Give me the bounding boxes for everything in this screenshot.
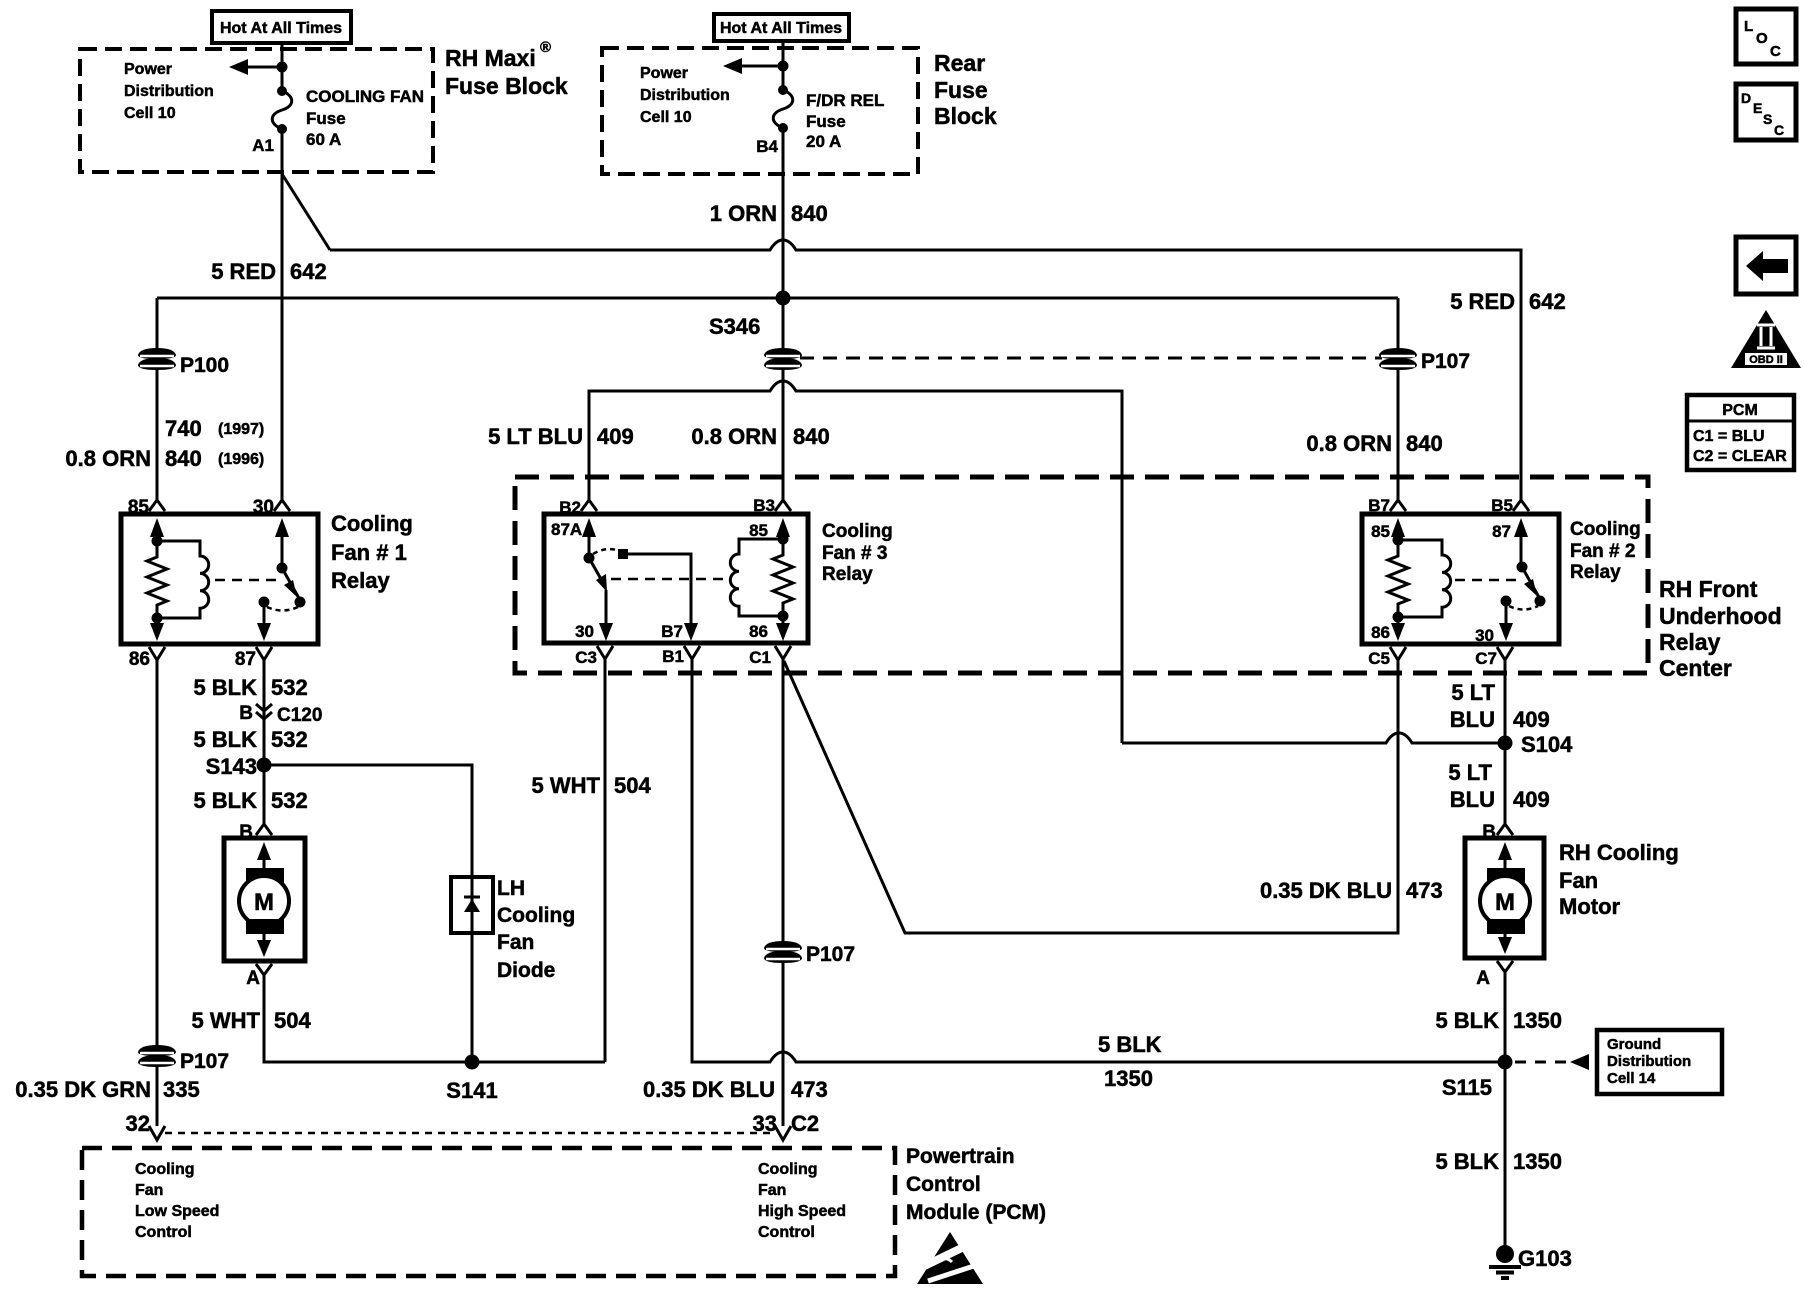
svg-text:5 WHT: 5 WHT [192,1008,261,1033]
svg-text:1 ORN: 1 ORN [710,201,777,226]
svg-text:30: 30 [1475,626,1494,645]
wire motor A down to S141 trunk [264,975,605,1062]
fuse COOLING FAN 60A [272,86,292,134]
svg-text:87: 87 [235,649,256,670]
inline connector C120 pin B [239,703,322,726]
svg-text:B2: B2 [559,498,581,517]
LH Cooling Fan Diode label [497,877,575,982]
back arrow icon [1736,237,1796,294]
PCM dashed box [82,1148,895,1276]
svg-text:Cooling: Cooling [822,521,893,542]
1 ORN 840 label [710,201,828,226]
svg-text:0.35 DK BLU: 0.35 DK BLU [643,1077,775,1102]
K3 switch common stud [618,549,628,559]
wire LT BLU riser to S104 (hops over x=1398) [1122,733,1505,743]
wire from Hot At All Times to fuse (right) [782,42,785,90]
svg-text:85: 85 [1371,522,1390,541]
splice S141 [446,1055,497,1104]
diode D1 box [451,877,493,933]
svg-text:Cooling: Cooling [135,1161,195,1178]
svg-text:Motor: Motor [1559,894,1621,919]
RH motor terminal arrow (A) [1504,934,1507,941]
splice S104 [1498,732,1574,757]
motor pin B chevron [256,824,272,835]
Hot At All Times box (left) [212,11,351,43]
svg-text:30: 30 [253,497,274,518]
OBD II triangle icon [1731,310,1801,368]
DESC icon [1736,84,1796,140]
svg-text:60 A: 60 A [306,130,341,149]
svg-text:B7: B7 [1368,496,1390,515]
svg-text:Relay: Relay [1659,629,1721,655]
svg-text:C7: C7 [1475,649,1497,668]
K1 switch terminal arrow (87) [263,607,266,627]
svg-text:87A: 87A [551,520,582,539]
pin B7 chevron [1390,500,1406,511]
svg-text:473: 473 [791,1077,828,1102]
5 BLK 532 label (above S143) [193,727,307,752]
RH motor terminal arrow (B) [1498,842,1512,860]
svg-text:473: 473 [1406,878,1443,903]
svg-text:P107: P107 [806,943,855,966]
K3 coil-switch dashed link [611,578,723,581]
0.35 DK BLU 473 label (relay2 86 branch) [1260,878,1443,903]
K2 switch terminal arrow (30) [1505,606,1508,627]
pin C7 chevron [1497,647,1513,660]
pin 33 connector chevron [775,1126,791,1140]
pin 85 chevron [149,500,165,511]
svg-text:RH Front: RH Front [1659,576,1758,602]
wire relay1 87 down to motor B [263,660,266,824]
LOC icon [1736,9,1796,64]
svg-text:Cell 10: Cell 10 [124,105,176,122]
svg-text:86: 86 [129,649,150,670]
pin 32 connector chevron [149,1126,165,1140]
svg-text:Fuse: Fuse [806,112,846,131]
svg-text:S: S [1763,111,1772,127]
740 (1997) / 0.8 ORN 840 (1996) labels [65,416,264,471]
relay K1 box [121,514,318,644]
svg-text:Fuse Block: Fuse Block [445,73,568,99]
svg-text:Underhood: Underhood [1659,603,1782,629]
dashed wire P107 pass-through (top) [800,357,1382,360]
wire A1 fuse down to relay1 pin 30 [281,129,284,500]
svg-text:20 A: 20 A [806,132,841,151]
K1 coil-switch dashed link [215,579,277,582]
svg-text:B5: B5 [1491,496,1513,515]
relay K3 box [544,514,808,643]
svg-text:Control: Control [758,1224,815,1241]
svg-text:642: 642 [1529,289,1566,314]
K2 coil inductor element [1398,540,1451,617]
svg-text:PCM: PCM [1722,402,1758,419]
wire C7 down through S104 to RH motor B [1504,660,1507,824]
pin C5 chevron [1390,647,1406,660]
svg-text:M: M [1495,889,1515,916]
svg-text:S143: S143 [206,754,257,779]
svg-text:840: 840 [1406,431,1443,456]
0.8 ORN trunk wire [157,297,1398,300]
svg-text:O: O [1756,30,1768,47]
svg-text:642: 642 [290,259,327,284]
K1 switch dashed throw arc [267,607,298,611]
svg-text:532: 532 [271,675,308,700]
LH Cooling Fan Motor box [224,838,305,961]
K1 coil node top [152,536,163,547]
inline connector P100 [138,348,229,377]
K2 switch dashed throw arc [1509,606,1538,610]
Cooling Fan Low Speed Control label [135,1161,219,1241]
svg-text:C3: C3 [575,648,597,667]
svg-text:C1 = BLU: C1 = BLU [1693,428,1765,445]
K2 coil-switch dashed link [1455,579,1516,582]
svg-text:86: 86 [749,622,768,641]
K1 coil node bottom [152,613,163,624]
svg-text:Relay: Relay [1570,562,1621,583]
svg-text:5 BLK: 5 BLK [193,675,257,700]
svg-text:Fuse: Fuse [306,109,346,128]
wire B4 fuse down through S346 to relay3 pin B3 [782,128,785,500]
svg-text:0.8 ORN: 0.8 ORN [1306,431,1392,456]
svg-text:5 RED: 5 RED [1450,289,1515,314]
svg-text:Cooling: Cooling [1570,519,1641,540]
svg-text:LH: LH [497,877,525,900]
svg-text:C2: C2 [791,1111,819,1136]
svg-text:Control: Control [906,1173,981,1196]
K1 coil resistor element [147,541,167,618]
K3 coil node top [778,534,789,545]
pin B2 chevron [581,500,597,511]
svg-text:Cell 14: Cell 14 [1607,1070,1656,1087]
F/DR REL Fuse 20 A label [806,91,884,151]
5 RED 642 label (left) [211,259,327,284]
K3 wire common to pin B1 [628,554,691,627]
LH motor upper brush [246,868,284,883]
svg-text:5 LT BLU: 5 LT BLU [488,424,583,449]
svg-text:®: ® [540,39,551,56]
svg-text:0.35 DK GRN: 0.35 DK GRN [15,1077,151,1102]
svg-text:5 RED: 5 RED [211,259,276,284]
LH motor lower brush [246,919,284,934]
svg-text:409: 409 [1513,707,1550,732]
svg-text:A: A [246,968,260,989]
svg-text:840: 840 [791,201,828,226]
svg-text:Hot At All Times: Hot At All Times [220,20,342,37]
svg-text:532: 532 [271,727,308,752]
5 BLK 532 label (above C120) [193,675,307,700]
LH motor terminal arrow (A) [263,934,266,944]
K1 switch terminal arrow (30) [275,518,289,537]
K2 coil terminal arrow (86) [1397,617,1400,627]
K3 coil inductor element [730,539,783,616]
RH motor lower brush [1487,919,1525,934]
5 LT BLU 409 label (below S104) [1448,760,1549,812]
K2 coil node bottom [1393,612,1404,623]
svg-text:C120: C120 [277,705,322,726]
svg-text:C5: C5 [1368,649,1390,668]
wire from Hot At All Times to fuse (left) [281,44,284,91]
pin B5 chevron [1513,500,1529,511]
svg-text:1350: 1350 [1513,1149,1562,1174]
pin 86 chevron [149,647,165,660]
svg-text:5 BLK: 5 BLK [193,727,257,752]
svg-text:Distribution: Distribution [640,87,730,104]
5 BLK 1350 label (to G103) [1435,1149,1562,1174]
svg-text:5 BLK: 5 BLK [193,788,257,813]
RH Front Underhood Relay Center dashed box [515,477,1648,673]
0.8 ORN 840 label (relay2 B7) [1306,431,1442,456]
K3 coil resistor element [773,539,793,616]
RH motor armature circle [1480,876,1530,926]
svg-text:Power: Power [640,65,688,82]
svg-text:Fan: Fan [758,1182,786,1199]
RH Maxi Fuse Block label [445,39,568,99]
K2 coil resistor element [1388,540,1408,617]
K3 switch terminal arrow (B1) [684,623,698,641]
svg-text:C: C [1774,122,1784,138]
svg-text:COOLING FAN: COOLING FAN [306,87,424,106]
svg-text:Diode: Diode [497,959,555,982]
Rear Fuse Block label [934,50,997,129]
K2 coil node top [1393,535,1404,546]
wire relay1 86 down to PCM pin 32 [156,660,159,1126]
pin C3 chevron [597,646,613,659]
svg-text:335: 335 [163,1077,200,1102]
svg-text:Cooling: Cooling [331,511,413,536]
svg-text:S346: S346 [709,314,760,339]
wire left ORN drop to P100 and relay1 pin 85 [156,298,159,500]
svg-text:BLU: BLU [1450,707,1495,732]
ground G103 [1489,1245,1572,1278]
svg-text:85: 85 [749,521,768,540]
wire diode to S141 [471,933,474,1062]
K1 switch pivot [277,563,288,574]
svg-text:1350: 1350 [1513,1008,1562,1033]
svg-text:840: 840 [165,446,202,471]
svg-text:Fan # 1: Fan # 1 [331,540,407,565]
svg-text:(1997): (1997) [218,421,264,438]
svg-text:0.8 ORN: 0.8 ORN [691,424,777,449]
diode D1 symbol [464,877,480,933]
svg-text:504: 504 [614,773,651,798]
Cooling Fan High Speed Control label [758,1161,846,1241]
off-page arrow to Power Distribution (right) [723,58,789,74]
wire C3 down and left to S141 [604,659,607,1062]
svg-text:S141: S141 [446,1078,497,1103]
5 BLK 532 label (below S143) [193,788,307,813]
K3 coil terminal arrow (85) [776,518,790,537]
K1 coil terminal arrow (86) [156,618,159,627]
K2 switch pivot [1517,562,1528,573]
K3 switch blade [589,558,605,586]
svg-text:5 WHT: 5 WHT [532,773,601,798]
inline connector below S346 [764,348,802,370]
svg-text:Cooling: Cooling [758,1161,818,1178]
5 BLK / 1350 label (trunk) [1098,1032,1162,1091]
inline connector P107 (right) [1379,348,1470,373]
5 LT BLU 409 label (above S104) [1450,680,1550,732]
svg-text:86: 86 [1371,623,1390,642]
5 RED 642 label (right) [1450,289,1566,314]
svg-text:Relay: Relay [822,564,873,585]
relay K2 box [1362,514,1559,644]
svg-text:1350: 1350 [1104,1066,1153,1091]
svg-text:Fan: Fan [135,1182,163,1199]
wire B1 down to BLK trunk (hops over x=783) [692,659,1505,1062]
svg-text:OBD II: OBD II [1749,354,1783,366]
Powertrain Control Module (PCM) label [906,1145,1046,1224]
svg-text:E: E [1753,100,1762,116]
splice S346 [709,291,791,340]
svg-text:(1996): (1996) [218,451,264,468]
svg-text:5 BLK: 5 BLK [1435,1149,1499,1174]
Hot At All Times box (right) [714,14,849,41]
svg-text:30: 30 [575,622,594,641]
K3 switch terminal arrow (30) [599,623,613,641]
svg-text:S115: S115 [1442,1075,1492,1100]
K1 coil inductor element [157,541,209,618]
RH Cooling Fan Motor label [1559,840,1679,919]
svg-text:Distribution: Distribution [1607,1053,1691,1070]
Power Distribution Cell 10 label (left) [124,61,214,122]
motor pin A chevron [256,964,272,975]
K3 switch dashed arc to common [593,549,620,554]
svg-text:Relay: Relay [331,568,390,593]
5 LT BLU 409 label (relay3 B2) [488,424,634,449]
wire right ORN drop to P107 and relay2 pin B7 [1397,298,1400,500]
0.8 ORN 840 label (relay3 B3) [691,424,829,449]
svg-text:C2 = CLEAR: C2 = CLEAR [1693,448,1787,465]
K1 switch blade [282,568,300,600]
svg-text:Fuse: Fuse [934,77,988,103]
RH motor pin B chevron [1497,824,1513,835]
svg-text:C: C [1770,43,1781,60]
svg-text:0.35 DK BLU: 0.35 DK BLU [1260,878,1392,903]
inline connector P107 (bottom left) [138,1045,229,1073]
K3 coil node bottom [778,611,789,622]
svg-text:409: 409 [597,424,634,449]
svg-text:P100: P100 [180,354,229,377]
svg-text:Fan # 3: Fan # 3 [822,543,887,564]
svg-text:Low Speed: Low Speed [135,1203,219,1220]
K1 coil terminal arrow (85) [150,518,164,537]
fuse F/DR REL 20A [773,85,793,133]
svg-text:Fan # 2: Fan # 2 [1570,541,1635,562]
RH motor upper brush [1487,868,1525,883]
pin 87 chevron [256,647,272,660]
Power Distribution Cell 10 label (right) [640,65,730,126]
svg-text:P107: P107 [180,1050,229,1073]
LH motor armature circle [239,876,289,926]
svg-text:0.8 ORN: 0.8 ORN [65,446,151,471]
svg-text:Power: Power [124,61,172,78]
K3 switch blade to pin 30 [605,590,608,627]
5 BLK 1350 label (RH motor A) [1435,1008,1562,1033]
svg-text:High Speed: High Speed [758,1203,846,1220]
diagonal wire A1 feed to 5 RED 642 trunk [282,174,330,250]
svg-text:Distribution: Distribution [124,83,214,100]
5 LT BLU 409 feed wire to relay3 87A (hops over ORN at x=783) [589,381,1122,743]
pin B1 chevron [684,646,700,659]
K2 switch terminal arrow (87) [1514,518,1528,537]
svg-text:504: 504 [274,1008,311,1033]
PCM connector face dotted line [165,1132,775,1135]
svg-text:C1: C1 [749,648,771,667]
svg-text:Cooling: Cooling [497,904,575,927]
svg-text:Fan: Fan [1559,868,1598,893]
svg-text:5 LT: 5 LT [1451,680,1495,705]
dashed off-page link to Ground Distribution [1515,1054,1589,1070]
pin B3 chevron [775,500,791,511]
off-page arrow to Power Distribution (left) [229,59,288,75]
svg-text:Center: Center [1659,655,1732,681]
K3 switch terminal arrow (87A) [582,518,596,537]
PCM connector legend box [1687,395,1794,470]
svg-text:409: 409 [1513,787,1550,812]
RH Front Underhood Relay Center label [1659,576,1782,681]
svg-text:D: D [1741,90,1751,106]
svg-text:Fan: Fan [497,931,534,954]
svg-text:5 BLK: 5 BLK [1435,1008,1499,1033]
svg-text:P107: P107 [1421,350,1470,373]
relay K1 name label [331,511,413,593]
relay K3 name label [822,521,893,585]
svg-text:BLU: BLU [1450,787,1495,812]
K3 switch 87A contact [584,553,595,564]
svg-text:532: 532 [271,788,308,813]
svg-text:32: 32 [126,1111,150,1136]
svg-text:B1: B1 [662,647,684,666]
5 RED 642 trunk wire (hops over ORN at x=783) [330,240,1521,500]
COOLING FAN Fuse 60 A label [306,87,424,149]
svg-text:Hot At All Times: Hot At All Times [720,20,842,37]
K2 coil terminal arrow (85) [1391,518,1405,537]
5 WHT 504 label (diode branch) [532,773,652,798]
svg-text:B4: B4 [756,137,778,156]
pin 30 chevron [274,500,290,511]
inline connector P107 (center) [764,941,855,966]
svg-text:L: L [1744,18,1753,35]
svg-text:87: 87 [1492,522,1511,541]
wire C1 branch diagonal to relay2 C5 [784,660,1398,933]
svg-text:M: M [254,889,274,916]
5 WHT 504 label (motor A) [192,1008,312,1033]
wire S115 down to G103 [1504,1062,1507,1246]
wire S143 to diode [264,765,472,877]
svg-text:B3: B3 [753,496,775,515]
svg-text:Block: Block [934,103,997,129]
ESD sensitivity symbol [912,1232,986,1284]
svg-text:Rear: Rear [934,50,985,76]
svg-text:S104: S104 [1521,732,1573,757]
wire RH motor A to S115 [1504,972,1507,1062]
svg-text:B: B [239,703,253,724]
K2 switch blade [1522,567,1540,599]
svg-text:840: 840 [793,424,830,449]
K1 switch throw contact [259,597,270,608]
wire C1 down to PCM pin 33 [782,659,785,1126]
svg-text:85: 85 [128,497,150,518]
svg-text:A: A [1476,968,1490,989]
RH motor pin A chevron [1497,961,1513,972]
svg-text:F/DR REL: F/DR REL [806,91,884,110]
svg-text:Control: Control [135,1224,192,1241]
svg-text:G103: G103 [1518,1246,1572,1271]
svg-text:B7: B7 [661,622,683,641]
LH motor terminal arrow (B) [257,842,271,860]
Rear Fuse Block dashed box [602,48,918,174]
Ground Distribution Cell 14 box [1597,1030,1722,1094]
